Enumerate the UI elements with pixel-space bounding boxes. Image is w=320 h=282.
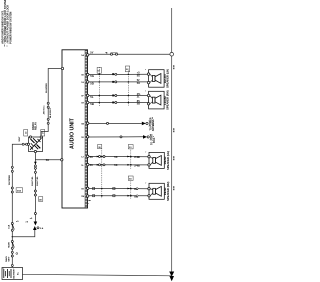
wire W3 front speaker LH - <box>81 79 148 85</box>
connector dashed strip front C-07 line <box>99 67 101 106</box>
svg-text:*B: *B <box>105 52 108 54</box>
svg-text:2D: 2D <box>39 199 42 201</box>
svg-text:r: r <box>145 91 146 93</box>
bus wire labels BTN <box>174 64 176 190</box>
wire from audio unit left pin to relay <box>41 67 64 135</box>
bottom wire from battery to right bus <box>23 274 172 276</box>
svg-text:50: 50 <box>90 163 94 167</box>
wire W9 rear speaker LH - <box>81 163 148 167</box>
junction node on left chain <box>12 236 13 237</box>
svg-text:50: 50 <box>114 163 118 167</box>
svg-text:BTN: BTN <box>174 64 176 69</box>
svg-text:r: r <box>145 183 146 185</box>
svg-text:5B: 5B <box>90 102 94 106</box>
svg-text:BTN: BTN <box>174 185 176 190</box>
svg-text:BATTERY: BATTERY <box>13 268 16 279</box>
svg-text:WHT/RED: WHT/RED <box>9 174 11 185</box>
wire relay to audio unit pin 50 <box>35 153 63 162</box>
front speaker RH SP2 <box>145 90 170 110</box>
svg-text:SPEAKER (LH): SPEAKER (LH) <box>166 151 170 170</box>
svg-text:50: 50 <box>46 158 50 162</box>
svg-text:r: r <box>145 152 146 154</box>
wire W8 rear speaker LH + <box>81 155 148 159</box>
svg-text:SPEAKER (LH): SPEAKER (LH) <box>166 69 170 88</box>
rear speaker RH SP4 <box>145 181 170 201</box>
svg-text:AUDIO UNIT: AUDIO UNIT <box>70 117 76 149</box>
svg-text:5L: 5L <box>90 95 94 99</box>
svg-text:1M: 1M <box>81 196 84 198</box>
fuse F2 main on left chain <box>7 241 14 250</box>
wire W1 ACC feed top <box>81 51 170 57</box>
svg-text:1K: 1K <box>81 189 84 191</box>
connector label box C-07 <box>97 67 101 73</box>
arrow marks into rear connector strips <box>97 156 130 197</box>
svg-text:*: * <box>88 204 89 206</box>
svg-text:1G: 1G <box>81 82 84 84</box>
wire relay left to left chain <box>12 144 27 267</box>
svg-text:1H: 1H <box>81 103 84 105</box>
connector strip rear RH C-34 <box>128 176 139 199</box>
svg-text:SPEAKER (RH): SPEAKER (RH) <box>166 90 170 110</box>
wire W6 to power antenna <box>81 117 155 131</box>
svg-text:24B: 24B <box>134 155 140 159</box>
wire W5 front speaker RH - <box>81 100 148 106</box>
wire W2 front speaker LH + <box>81 72 148 78</box>
svg-text:BLK/YEL: BLK/YEL <box>37 176 39 186</box>
connector dashed strip rear C-30 <box>98 145 103 199</box>
svg-text:RELAY: RELAY <box>34 122 37 130</box>
svg-text:24B: 24B <box>134 163 140 167</box>
legend note text <box>2 0 13 47</box>
connector strip rear LH C-33 <box>128 145 140 170</box>
svg-text:r: r <box>145 69 146 71</box>
svg-text:MAIN: MAIN <box>7 242 10 248</box>
svg-text:5B: 5B <box>137 103 140 106</box>
svg-text:15A: 15A <box>7 224 10 228</box>
connector label box C-22 <box>125 66 129 72</box>
svg-text:BOX *: BOX * <box>153 136 156 143</box>
svg-text:WHT: WHT <box>8 256 10 262</box>
svg-text:SPEAKER (RH): SPEAKER (RH) <box>166 181 170 201</box>
battery B1 <box>2 264 23 279</box>
connector pair above battery <box>8 251 17 261</box>
svg-text:5D: 5D <box>90 81 94 85</box>
svg-text:30A: 30A <box>17 190 21 193</box>
wire W10 rear speaker RH + <box>81 187 148 190</box>
ground pin mark bottom right of audio unit <box>88 201 90 206</box>
svg-text:BLU/RED: BLU/RED <box>46 83 48 93</box>
wire W11 rear speaker RH - <box>81 195 148 199</box>
relay (radio relay) K1 <box>24 122 45 153</box>
front speaker LH SP1 <box>145 69 170 88</box>
svg-text:BLK/WHT: BLK/WHT <box>50 107 52 118</box>
arrow bottom-right continuation <box>169 272 174 282</box>
wire relay branch down to connector <box>30 160 43 226</box>
svg-text:1A: 1A <box>81 54 84 57</box>
right page bus wire <box>171 8 173 274</box>
node at top-right junction <box>170 52 174 56</box>
fusible link label <box>5 256 8 262</box>
svg-text:5O: 5O <box>137 82 140 85</box>
svg-text:50: 50 <box>90 155 94 159</box>
connector pair 2 on left chain <box>11 187 22 193</box>
svg-text:5G: 5G <box>137 74 140 77</box>
svg-text:POWER WINDOW SYSTEM: POWER WINDOW SYSTEM <box>9 12 12 47</box>
svg-text:1D: 1D <box>81 137 84 139</box>
svg-text:ANTENNA **: ANTENNA ** <box>152 117 155 131</box>
rear speaker LH SP3 <box>145 151 170 170</box>
svg-text:BTN: BTN <box>174 155 176 160</box>
svg-text:BLK/YEL: BLK/YEL <box>32 176 34 186</box>
svg-text:5Y: 5Y <box>90 51 93 55</box>
svg-text:BTN: BTN <box>174 127 176 132</box>
svg-text:5G: 5G <box>90 74 94 78</box>
svg-text:MAIN: MAIN <box>5 256 8 262</box>
audio unit U1 <box>62 50 88 208</box>
connector pair on left chain <box>9 166 14 185</box>
svg-text:1B: 1B <box>81 123 84 125</box>
wire branch to up-arrow connector <box>12 221 44 236</box>
wire W7 to cd changer <box>81 133 156 145</box>
svg-text:WHT: WHT <box>19 136 21 142</box>
svg-text:50: 50 <box>114 155 118 159</box>
wire W4 front speaker RH + <box>81 93 148 99</box>
svg-text:J/B NO.1: J/B NO.1 <box>44 105 46 115</box>
connector pair on relay left wire <box>19 136 28 145</box>
fuse F1 on left chain <box>7 221 19 231</box>
connector C-05 dashed strip front <box>128 71 130 107</box>
